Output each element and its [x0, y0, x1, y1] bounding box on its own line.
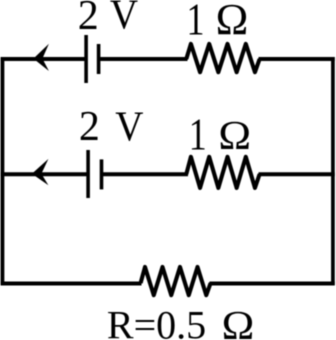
resistor R1 zigzag: [186, 44, 259, 72]
battery V2 long plate: [86, 150, 90, 198]
wire top branch right segment: [259, 57, 335, 61]
svg-text:R=0.5: R=0.5: [107, 303, 206, 340]
svg-text:1: 1: [189, 110, 207, 160]
current arrow middle branch: [32, 159, 49, 185]
resistor R3 zigzag: [141, 267, 211, 295]
svg-text:1: 1: [187, 0, 205, 44]
current arrow top branch: [33, 44, 49, 71]
battery V1 long plate: [84, 35, 88, 83]
wire middle branch right segment: [259, 172, 335, 176]
wire bottom branch right segment: [210, 282, 335, 286]
battery V2 short plate: [100, 159, 104, 189]
wire right vertical: [331, 57, 335, 285]
wire top branch left segment: [1, 57, 86, 61]
svg-text:2: 2: [78, 0, 99, 39]
wire left vertical: [1, 57, 5, 285]
svg-text:Ω: Ω: [216, 0, 249, 44]
svg-text:V: V: [110, 0, 138, 38]
svg-text:Ω: Ω: [222, 303, 255, 340]
wire middle branch left segment: [1, 172, 87, 176]
svg-text:V: V: [115, 103, 143, 150]
battery V1 short plate: [97, 44, 101, 74]
wire top branch middle segment: [100, 57, 188, 61]
wire bottom branch left segment: [1, 282, 142, 286]
resistor R2 zigzag: [186, 157, 259, 188]
wire middle branch middle segment: [103, 172, 189, 176]
svg-text:2: 2: [79, 104, 100, 150]
svg-text:Ω: Ω: [218, 113, 251, 158]
